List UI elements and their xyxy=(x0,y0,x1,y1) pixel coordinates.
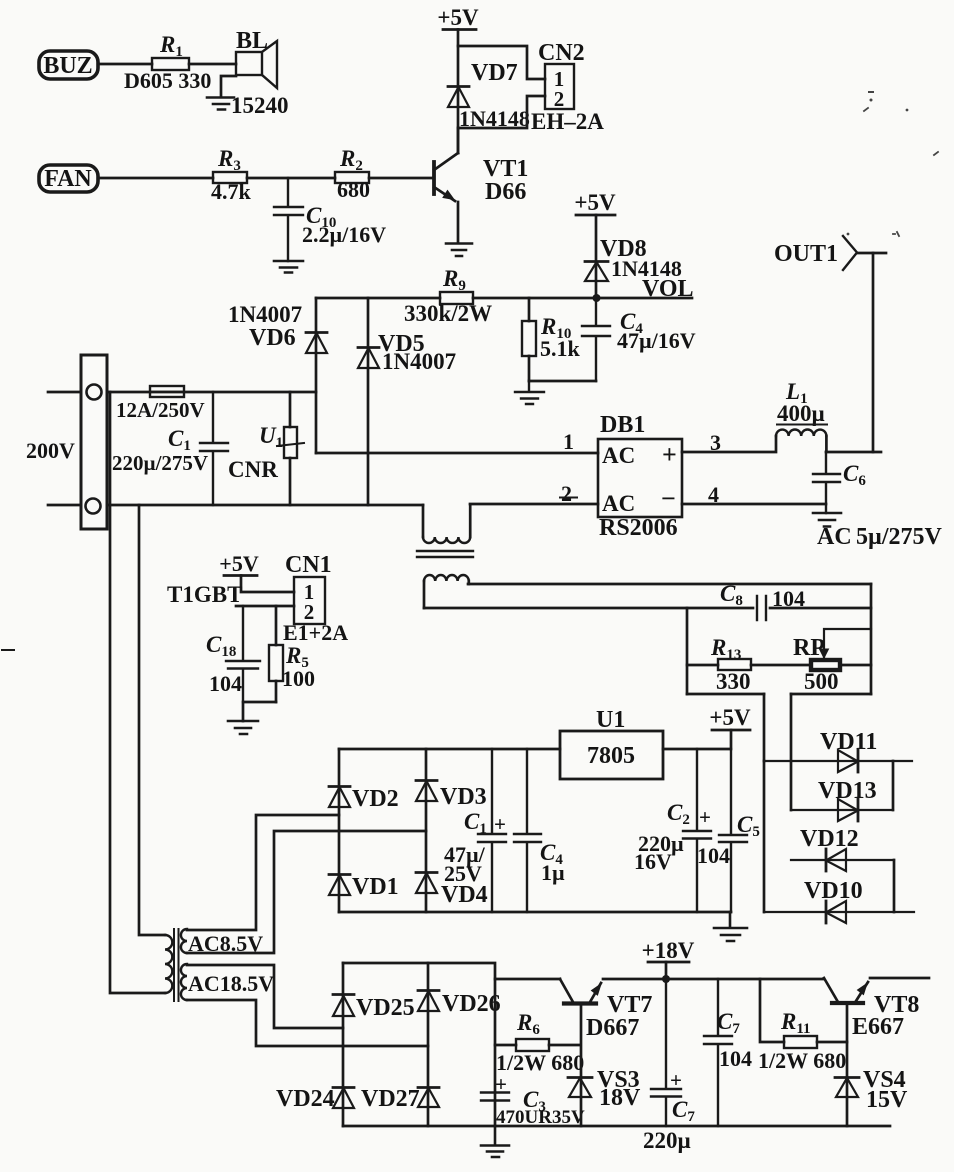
svg-text:200V: 200V xyxy=(26,438,75,463)
diode VD12 xyxy=(791,859,894,861)
svg-text:D66: D66 xyxy=(485,179,526,205)
wire xyxy=(247,177,335,180)
diode VD8 xyxy=(585,260,608,263)
svg-text:+5V: +5V xyxy=(709,705,751,730)
svg-text:RS2006: RS2006 xyxy=(599,515,678,541)
svg-text:R1: R1 xyxy=(159,32,183,60)
ground xyxy=(274,261,303,273)
svg-text:VD7: VD7 xyxy=(471,60,518,86)
svg-text:VD10: VD10 xyxy=(804,878,863,904)
svg-text:VD6: VD6 xyxy=(249,325,296,351)
wire mains drop B xyxy=(139,505,165,935)
svg-text:D667: D667 xyxy=(586,1015,639,1041)
capacitor C18 xyxy=(226,606,260,702)
svg-text:+: + xyxy=(662,440,677,469)
wire xyxy=(189,63,236,66)
resistor R13 xyxy=(718,659,751,670)
svg-text:OUT1: OUT1 xyxy=(774,241,838,267)
zener VS3 xyxy=(568,1076,592,1079)
wire xyxy=(187,965,343,1028)
svg-text:104: 104 xyxy=(209,671,242,696)
speck marks xyxy=(2,649,14,651)
wire xyxy=(369,177,434,180)
wire xyxy=(458,96,545,128)
svg-text:R13: R13 xyxy=(710,635,741,663)
diode VD26 xyxy=(418,989,439,992)
svg-text:18V: 18V xyxy=(599,1085,641,1111)
varistor U1 CNR xyxy=(289,392,292,505)
svg-text:330: 330 xyxy=(716,669,751,694)
svg-text:16V: 16V xyxy=(634,849,672,874)
wire VT7 base xyxy=(580,1005,583,1126)
svg-text:BL: BL xyxy=(236,28,268,54)
wire secondary bottom xyxy=(424,607,871,610)
wire xyxy=(187,831,426,953)
svg-text:+5V: +5V xyxy=(437,5,479,30)
svg-text:+: + xyxy=(670,1068,682,1092)
transistor VT8 xyxy=(832,1001,863,1005)
resistor R11 xyxy=(760,979,847,1042)
capacitor C7 104 xyxy=(704,979,732,1126)
svg-text:VD1: VD1 xyxy=(352,874,399,900)
svg-text:12A/250V: 12A/250V xyxy=(116,398,205,422)
ground xyxy=(228,721,258,734)
svg-text:15240: 15240 xyxy=(231,93,289,118)
wire column2 xyxy=(427,963,430,1126)
svg-text:VD11: VD11 xyxy=(820,729,877,755)
svg-text:AC8.5V: AC8.5V xyxy=(188,931,263,956)
svg-text:+5V: +5V xyxy=(219,551,259,576)
svg-text:104: 104 xyxy=(719,1046,752,1071)
capacitor C6 xyxy=(813,452,840,513)
svg-text:+: + xyxy=(495,1072,507,1096)
svg-text:VD12: VD12 xyxy=(800,826,859,852)
svg-text:2: 2 xyxy=(561,481,572,506)
resistor R10 xyxy=(528,298,531,381)
svg-text:U1: U1 xyxy=(259,423,283,451)
capacitor C5 xyxy=(719,749,747,912)
node VOL junction xyxy=(593,294,601,302)
wire pin3 xyxy=(682,436,776,452)
svg-text:4.7k: 4.7k xyxy=(211,179,252,204)
wire xyxy=(187,1000,428,1046)
diode VD7 xyxy=(448,85,469,88)
svg-text:1/2W 680: 1/2W 680 xyxy=(496,1050,584,1075)
resistor R9 xyxy=(440,292,473,304)
diode VD1 xyxy=(329,873,350,876)
wire network bottom xyxy=(687,693,871,696)
svg-text:CN2: CN2 xyxy=(538,40,585,66)
wire column2 xyxy=(425,749,428,912)
svg-text:AC18.5V: AC18.5V xyxy=(188,971,274,996)
transformer T1 core xyxy=(417,551,473,557)
diode VD5 xyxy=(367,298,370,505)
wire bridge rail top xyxy=(339,748,560,751)
wire pin2 xyxy=(470,503,598,506)
fuse 12A/250V xyxy=(150,386,184,397)
diode VD13 xyxy=(791,809,893,811)
ground xyxy=(207,98,234,110)
svg-text:R9: R9 xyxy=(442,266,466,294)
svg-text:104: 104 xyxy=(697,843,730,868)
wire left drop xyxy=(686,608,689,694)
wire xyxy=(892,761,895,810)
svg-text:AC: AC xyxy=(817,524,852,550)
svg-text:+18V: +18V xyxy=(642,938,695,963)
svg-text:CN1: CN1 xyxy=(285,552,332,578)
svg-text:AC: AC xyxy=(602,443,635,468)
svg-text:R11: R11 xyxy=(780,1009,811,1037)
svg-text:100: 100 xyxy=(282,666,315,691)
svg-text:RP: RP xyxy=(793,635,825,661)
wire mains drop A xyxy=(110,392,165,993)
diode VD27 xyxy=(418,1086,439,1089)
wire VT8 emitter rail xyxy=(870,977,929,980)
diode VD3 xyxy=(416,779,437,782)
svg-text:+: + xyxy=(699,805,711,829)
wire R9 line xyxy=(316,297,692,300)
svg-text:C7: C7 xyxy=(672,1097,695,1125)
bridge rectifier DB1 xyxy=(598,439,682,517)
capacitor C2 electrolytic xyxy=(683,749,711,912)
ground xyxy=(446,244,472,257)
svg-text:2: 2 xyxy=(554,87,565,111)
ground xyxy=(813,513,841,527)
wire xyxy=(458,46,545,79)
svg-text:47µ/16V: 47µ/16V xyxy=(617,328,696,353)
inductor L1 xyxy=(776,430,826,436)
capacitor C10 xyxy=(274,178,303,261)
transformer T1 primary xyxy=(422,505,425,537)
node 200V input xyxy=(48,392,81,505)
transformer T1 secondary xyxy=(424,575,469,581)
svg-text:+5V: +5V xyxy=(574,190,616,215)
svg-text:330k/2W: 330k/2W xyxy=(404,301,492,326)
transformer T2 winding AC8.5V xyxy=(181,929,187,953)
zener VS4 xyxy=(835,1076,859,1079)
wire R13 row xyxy=(687,664,871,667)
svg-text:AC: AC xyxy=(602,491,635,516)
wire xyxy=(826,436,881,452)
svg-text:VD24: VD24 xyxy=(276,1086,335,1112)
ground xyxy=(481,1126,509,1157)
wire VT7 emitter rail xyxy=(603,978,824,981)
svg-text:220µ/275V: 220µ/275V xyxy=(112,451,208,475)
svg-text:15V: 15V xyxy=(866,1087,908,1113)
wire xyxy=(98,63,152,66)
svg-text:E667: E667 xyxy=(852,1014,904,1040)
wire right bus xyxy=(870,584,873,694)
svg-text:C6: C6 xyxy=(843,461,866,489)
wire xyxy=(236,605,294,608)
transistor VT1 xyxy=(432,162,436,194)
svg-text:400µ: 400µ xyxy=(777,401,825,426)
speaker BL xyxy=(236,52,262,75)
svg-text:5.1k: 5.1k xyxy=(540,336,581,361)
svg-text:C7: C7 xyxy=(717,1009,740,1037)
potentiometer RP xyxy=(811,660,840,670)
wire xyxy=(98,177,213,180)
svg-text:C1: C1 xyxy=(168,426,191,454)
node BUZ xyxy=(39,51,98,79)
regulator U1 xyxy=(560,731,663,779)
svg-text:VD26: VD26 xyxy=(442,991,501,1017)
resistor R6 xyxy=(495,1044,580,1047)
wire C3 drop xyxy=(494,979,497,1126)
svg-text:VD3: VD3 xyxy=(440,784,487,810)
svg-text:+: + xyxy=(494,812,506,836)
wire column1 xyxy=(338,749,341,912)
svg-text:R3: R3 xyxy=(217,146,241,174)
wire pin4 xyxy=(682,503,826,506)
diode VD4 xyxy=(416,871,437,874)
wire AC neutral xyxy=(107,504,423,507)
capacitor C4 xyxy=(582,298,610,381)
svg-text:U1: U1 xyxy=(596,707,625,733)
svg-text:1: 1 xyxy=(563,429,574,454)
svg-text:−: − xyxy=(661,484,676,513)
svg-text:EH–2A: EH–2A xyxy=(531,109,604,134)
resistor R2 xyxy=(335,172,369,183)
resistor R5 xyxy=(275,606,278,702)
svg-text:1/2W 680: 1/2W 680 xyxy=(758,1048,846,1073)
wire VT8 base xyxy=(846,1005,849,1126)
svg-text:VD2: VD2 xyxy=(352,786,399,812)
resistor R1 xyxy=(152,58,189,70)
svg-text:DB1: DB1 xyxy=(600,412,645,438)
svg-text:1N4007: 1N4007 xyxy=(228,302,302,327)
wire lower bridge rail top xyxy=(343,963,560,979)
svg-text:7805: 7805 xyxy=(587,743,635,769)
svg-text:470UR35V: 470UR35V xyxy=(496,1107,585,1128)
svg-text:5µ/275V: 5µ/275V xyxy=(856,524,942,550)
wire diode column left xyxy=(763,761,766,912)
svg-text:500: 500 xyxy=(804,669,839,694)
transistor VT7 xyxy=(564,1001,596,1005)
svg-text:C1: C1 xyxy=(464,809,487,837)
wire bridge rail bottom xyxy=(339,911,731,914)
svg-text:104: 104 xyxy=(772,586,805,611)
capacitor C3 electrolytic xyxy=(481,1093,509,1101)
wire xyxy=(243,702,276,721)
capacitor C8 xyxy=(757,596,766,620)
svg-text:CNR: CNR xyxy=(228,457,278,482)
connector CN2 xyxy=(545,64,574,109)
svg-text:VD25: VD25 xyxy=(356,995,415,1021)
svg-text:D605 330: D605 330 xyxy=(124,68,211,93)
svg-text:T1GBT: T1GBT xyxy=(167,582,242,607)
svg-text:C5: C5 xyxy=(737,812,760,840)
wire xyxy=(529,380,596,383)
svg-text:1µ: 1µ xyxy=(541,860,565,885)
wire AC hot xyxy=(107,391,316,394)
ground xyxy=(714,912,747,941)
diode VD25 xyxy=(333,993,354,996)
svg-text:2.2µ/16V: 2.2µ/16V xyxy=(302,222,386,247)
svg-text:220µ: 220µ xyxy=(643,1128,691,1153)
wire taps down xyxy=(764,694,791,810)
transformer T2 primary xyxy=(165,935,172,993)
diode VD11 xyxy=(764,760,912,762)
wire OUT1 drop xyxy=(872,253,875,452)
transformer T2 winding AC18.5V xyxy=(181,964,187,1000)
diode VD10 xyxy=(764,911,914,913)
wire secondary top xyxy=(468,583,871,586)
svg-text:VD13: VD13 xyxy=(818,778,877,804)
diode VD6 xyxy=(315,298,318,453)
diode VD24 xyxy=(333,1086,354,1089)
diode VD2 xyxy=(329,785,350,788)
wire xyxy=(187,815,339,930)
connector CN1 xyxy=(294,577,325,624)
svg-text:C2: C2 xyxy=(667,800,690,828)
wire xyxy=(221,76,236,97)
node +18V junction xyxy=(662,975,670,983)
node FAN xyxy=(39,165,98,192)
capacitor C1 electrolytic xyxy=(478,749,506,912)
svg-text:VD27: VD27 xyxy=(361,1086,420,1112)
wire xyxy=(457,128,460,243)
svg-text:FAN: FAN xyxy=(44,166,92,192)
wire to DB1 pin1 xyxy=(316,452,598,455)
svg-text:BUZ: BUZ xyxy=(43,53,92,79)
ground xyxy=(515,381,544,404)
svg-text:25V: 25V xyxy=(444,861,482,886)
svg-text:E1+2A: E1+2A xyxy=(283,620,348,645)
resistor R3 xyxy=(213,172,247,183)
wire xyxy=(893,860,896,912)
svg-text:680: 680 xyxy=(337,177,370,202)
wire column1 xyxy=(342,963,345,1126)
capacitor C1 xyxy=(200,392,228,505)
svg-text:R6: R6 xyxy=(516,1010,540,1038)
wire U1 out xyxy=(663,748,729,751)
wire lower bridge rail bottom xyxy=(343,1125,890,1128)
svg-text:R2: R2 xyxy=(339,146,363,174)
transformer T2 core xyxy=(174,929,179,1001)
svg-text:C18: C18 xyxy=(206,632,236,660)
capacitor C7 electrolytic 220u xyxy=(651,979,681,1126)
capacitor C4 xyxy=(514,749,541,912)
svg-text:1N4007: 1N4007 xyxy=(382,349,456,374)
